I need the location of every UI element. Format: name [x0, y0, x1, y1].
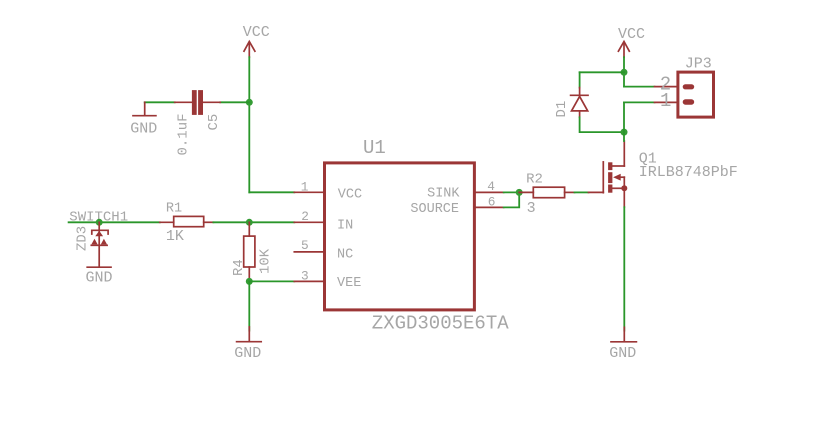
- wire pin1 down to junction: [623, 102, 625, 132]
- svg-text:C5: C5: [206, 114, 222, 131]
- svg-text:JP3: JP3: [685, 56, 712, 73]
- svg-text:GND: GND: [130, 120, 157, 137]
- JP3 pin 1 stub: [655, 101, 677, 103]
- diode D1: [571, 88, 588, 118]
- wire D1 bottom to drain node: [580, 117, 624, 132]
- ground GND (mid): [237, 327, 262, 342]
- resistor R1: [160, 216, 214, 226]
- svg-text:R1: R1: [166, 202, 182, 217]
- junction pin4/pin6/R2: [516, 189, 523, 196]
- pin 4 stub: [476, 191, 504, 193]
- ground GND (left of C5): [133, 102, 156, 115]
- wire pin4 to junction: [504, 191, 520, 193]
- ground GND (right): [611, 327, 636, 342]
- svg-text:D1: D1: [554, 101, 570, 118]
- wire JP3 pin2: [624, 86, 655, 88]
- svg-text:VEE: VEE: [337, 276, 361, 291]
- wire junction to drain: [623, 132, 625, 141]
- pin 1 stub: [294, 191, 323, 193]
- svg-text:IRLB8748PbF: IRLB8748PbF: [639, 164, 738, 181]
- wire R4 to GND: [248, 281, 250, 330]
- junction SWITCH1/ZD3: [96, 219, 103, 226]
- svg-text:R4: R4: [231, 259, 247, 276]
- junction D1/JP3-1/drain: [621, 129, 628, 136]
- wire VCC to D1: [580, 71, 624, 73]
- wire C5 left to GND: [145, 101, 175, 103]
- svg-text:SOURCE: SOURCE: [410, 202, 459, 217]
- JP3 pin 2 pad: [683, 84, 695, 89]
- svg-text:ZXGD3005E6TA: ZXGD3005E6TA: [372, 313, 509, 335]
- svg-text:NC: NC: [337, 247, 353, 262]
- junction R4/VEE/GND: [246, 278, 253, 285]
- VCC supply symbol (right arrow): [618, 42, 629, 58]
- svg-text:1: 1: [301, 179, 309, 194]
- svg-text:ZD3: ZD3: [75, 226, 91, 251]
- junction R1/R4/IN: [246, 219, 253, 226]
- pin 2 stub: [294, 221, 323, 223]
- capacitor C5: [175, 90, 221, 115]
- wire VCC to pin1: [249, 191, 294, 193]
- JP3 pin 2 stub: [655, 86, 677, 88]
- wire R2 to gate: [575, 191, 589, 193]
- ground GND (below ZD3): [87, 266, 111, 268]
- TVS diode ZD3: [91, 222, 108, 266]
- svg-text:SINK: SINK: [427, 187, 460, 202]
- wire VEE row: [249, 280, 294, 282]
- svg-text:3: 3: [301, 269, 309, 284]
- svg-text:3: 3: [527, 200, 536, 217]
- wire D1 top drop: [579, 72, 581, 87]
- pin 5 stub: [294, 251, 323, 253]
- wire pin6 to junction: [504, 192, 520, 207]
- pin 6 stub: [476, 206, 504, 208]
- svg-text:U1: U1: [363, 137, 386, 159]
- op-amp U1 box: [325, 163, 475, 310]
- svg-text:GND: GND: [86, 270, 113, 287]
- svg-text:VCC: VCC: [618, 26, 645, 43]
- pin 3 stub: [294, 280, 323, 282]
- wire JP3 pin1: [624, 101, 655, 103]
- svg-text:IN: IN: [337, 219, 353, 234]
- svg-text:GND: GND: [609, 345, 636, 362]
- svg-text:GND: GND: [234, 345, 261, 362]
- svg-text:1: 1: [660, 90, 671, 112]
- JP3 pin 1 pad: [683, 99, 695, 104]
- svg-text:R2: R2: [526, 172, 543, 188]
- junction VCC/D1/JP3-2: [621, 69, 628, 76]
- junction at C5/VCC net: [246, 99, 253, 106]
- wire source to GND: [623, 207, 625, 331]
- svg-text:VCC: VCC: [243, 24, 270, 41]
- wire C5 right to VCC net: [220, 101, 249, 103]
- resistor R2: [519, 187, 574, 198]
- svg-text:0.1uF: 0.1uF: [176, 113, 192, 155]
- VCC supply symbol (left arrow): [244, 42, 255, 58]
- svg-text:4: 4: [487, 179, 495, 194]
- wire R1 to pin 2: [213, 221, 294, 223]
- svg-text:5: 5: [301, 238, 309, 253]
- svg-text:6: 6: [488, 195, 496, 210]
- svg-text:10K: 10K: [258, 248, 274, 274]
- svg-text:VCC: VCC: [338, 187, 362, 202]
- svg-text:1K: 1K: [166, 228, 184, 245]
- connector JP3 box: [678, 72, 714, 117]
- svg-text:2: 2: [301, 209, 309, 224]
- wire SWITCH1 to R1: [69, 221, 160, 223]
- transistor Q1: [589, 141, 628, 207]
- wire VCC down: [623, 57, 625, 86]
- wire VCC vertical to pin 1 row: [248, 57, 250, 192]
- resistor R4: [244, 222, 255, 281]
